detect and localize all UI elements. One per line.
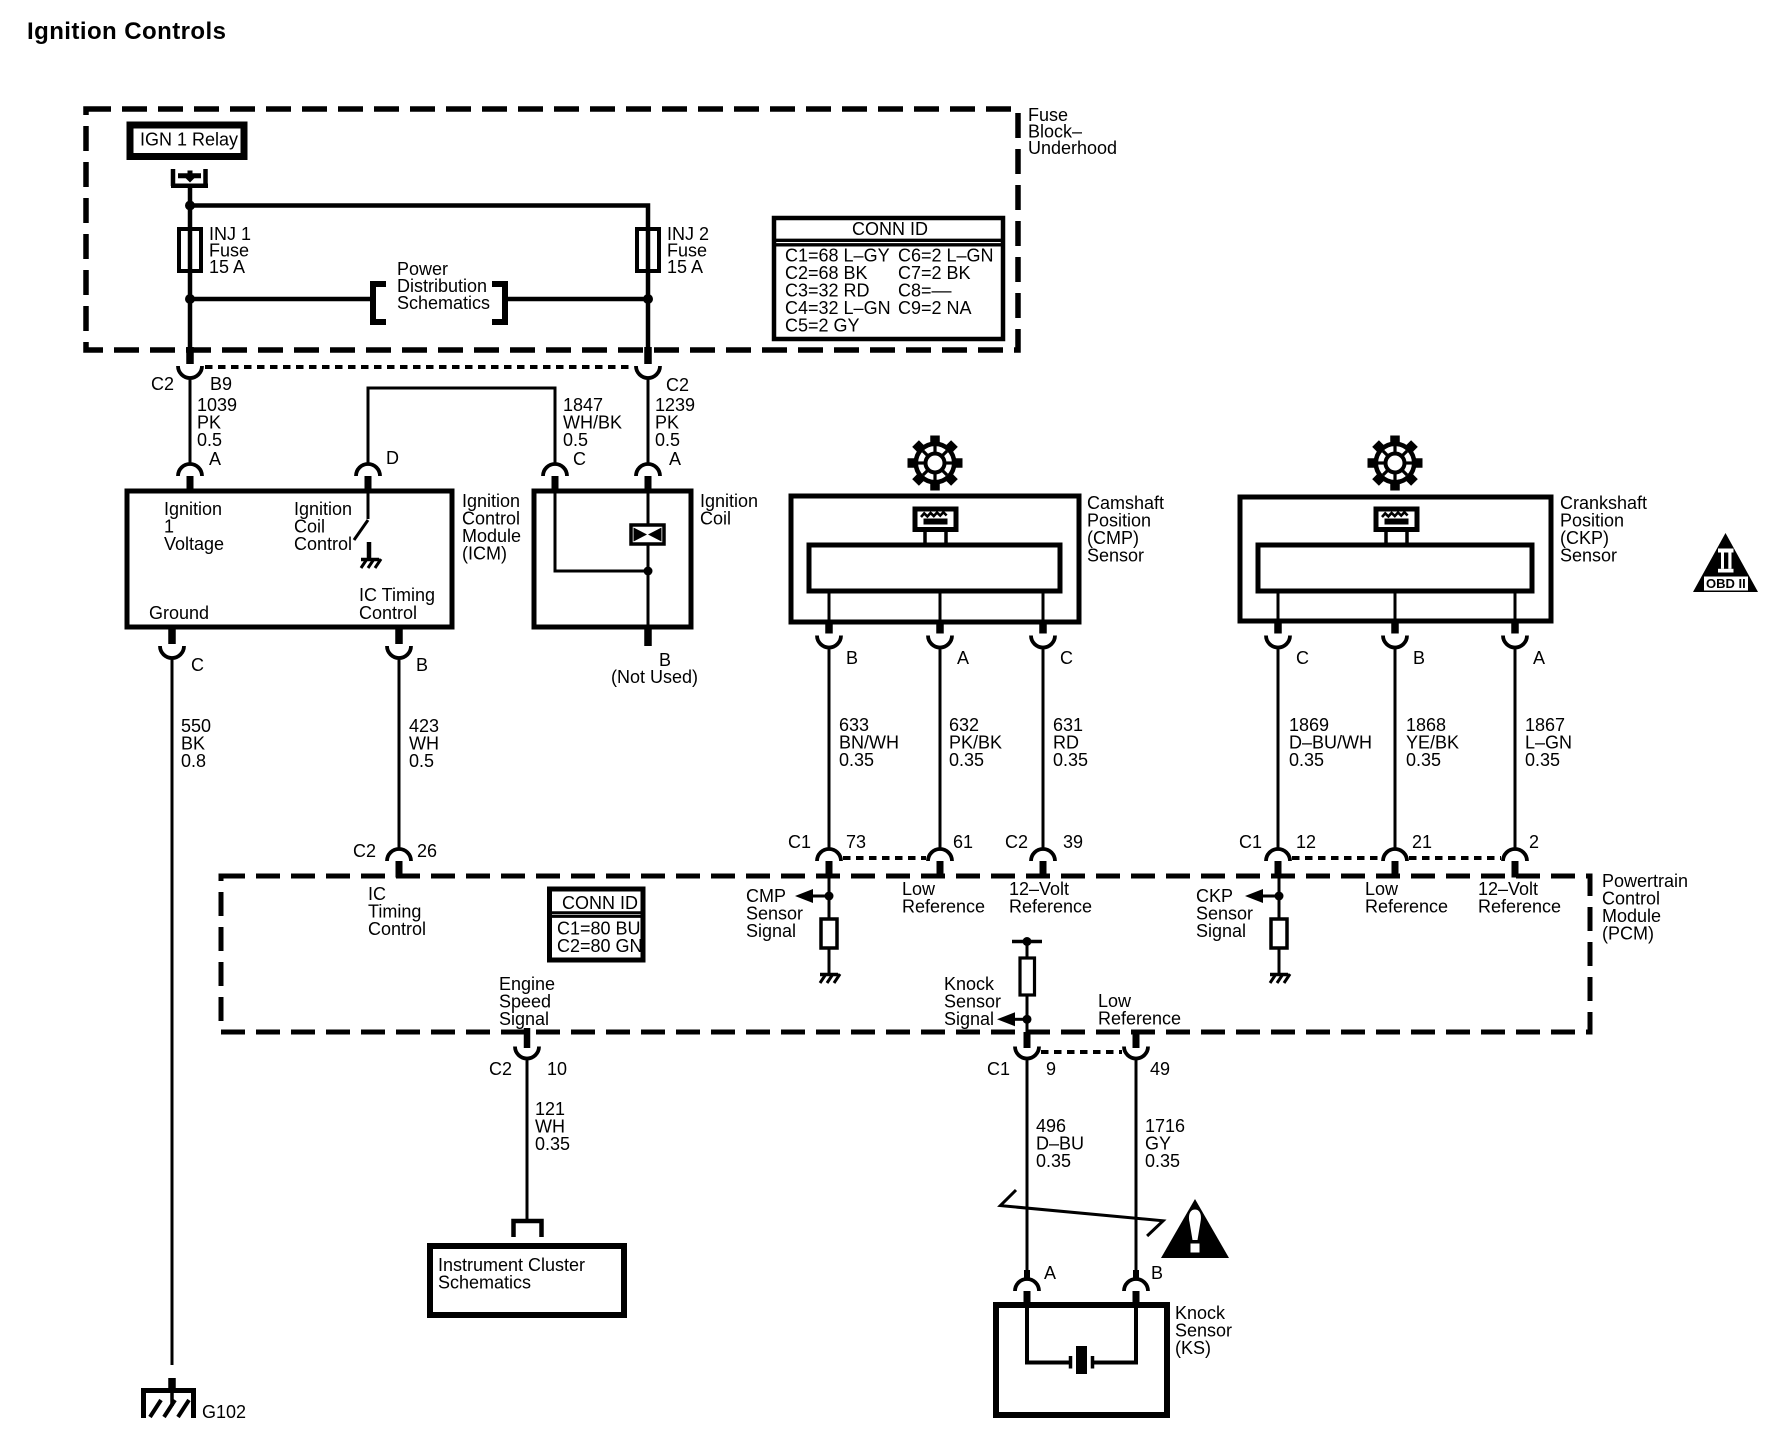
svg-text:2: 2 (1529, 832, 1539, 852)
svg-text:0.5: 0.5 (409, 751, 434, 771)
connector dome knock pin A (1015, 1279, 1039, 1291)
connector dome at coil pin C (543, 464, 567, 476)
svg-text:Control: Control (368, 919, 426, 939)
svg-text:15 A: 15 A (209, 257, 245, 277)
node junction below INJ2 fuse (643, 294, 653, 304)
ignition coil box (534, 491, 691, 627)
gear icon (CMP) (908, 436, 963, 491)
ground (inside ICM) (367, 542, 372, 558)
svg-text:Signal: Signal (1196, 921, 1246, 941)
instrument cluster box (430, 1246, 624, 1315)
svg-text:Control: Control (294, 534, 352, 554)
svg-text:Underhood: Underhood (1028, 138, 1117, 158)
knock sensor signal net stub (1012, 940, 1042, 944)
svg-text:Reference: Reference (1009, 897, 1092, 917)
svg-text:C2: C2 (489, 1059, 512, 1079)
off-page bracket to instrument cluster (514, 1221, 542, 1237)
svg-text:Signal: Signal (746, 921, 796, 941)
connector dome pin 61 (928, 849, 952, 861)
svg-text:0.35: 0.35 (839, 750, 874, 770)
CMP pin A connector (936, 622, 944, 634)
svg-text:0.35: 0.35 (1053, 750, 1088, 770)
svg-text:Voltage: Voltage (164, 534, 224, 554)
svg-text:C1: C1 (1239, 832, 1262, 852)
svg-text:Reference: Reference (1098, 1009, 1181, 1029)
svg-text:G102: G102 (202, 1402, 246, 1422)
piezo element symbol (1069, 1356, 1073, 1369)
CONN ID table (fuse block) (774, 218, 1003, 339)
fuse block underhood dashed border (86, 109, 1018, 350)
svg-text:Control: Control (359, 603, 417, 623)
svg-text:C1: C1 (987, 1059, 1010, 1079)
CKP sensor inner bar (1258, 545, 1532, 591)
wire feed2 right from bracket to INJ2 (505, 297, 648, 302)
svg-text:C5=2 GY: C5=2 GY (785, 316, 860, 336)
coil pin B stem (Not Used) (644, 627, 652, 646)
svg-text:C2: C2 (151, 374, 174, 394)
svg-text:Schematics: Schematics (438, 1273, 531, 1293)
resistor (KS pull-up) (1020, 958, 1035, 995)
svg-text:Coil: Coil (700, 509, 731, 529)
svg-text:Reference: Reference (1478, 897, 1561, 917)
connector C2 pin B9 cup (178, 366, 202, 378)
connector dome at coil pin A (636, 464, 660, 476)
dotted connector join line C2 (205, 365, 633, 369)
node junction below INJ1 fuse (185, 294, 195, 304)
CKP pin C connector (1274, 622, 1282, 634)
svg-text:12: 12 (1296, 832, 1316, 852)
warning triangle (1161, 1199, 1229, 1258)
ground (CKP resistor) (1270, 974, 1290, 983)
ICM pin C cup (160, 646, 184, 658)
svg-text:D: D (386, 448, 399, 468)
svg-text:49: 49 (1150, 1059, 1170, 1079)
wire relay to feed junction (188, 188, 193, 208)
svg-text:0.35: 0.35 (949, 750, 984, 770)
connector dome pin 39 (1031, 849, 1055, 861)
svg-text:CONN ID: CONN ID (852, 219, 928, 239)
dotted join 12-21-2 (1292, 856, 1381, 860)
wire 1868 YE/BK 0.35 (1394, 647, 1397, 849)
CKP pin B connector (1391, 622, 1399, 634)
svg-text:21: 21 (1412, 832, 1432, 852)
connector dome pin 21 (1383, 849, 1407, 861)
connector dome pin 2 (1503, 849, 1527, 861)
relay K: IGN 1 Relay label box (130, 125, 244, 157)
dotted join 9-49 (1041, 1050, 1122, 1054)
connector C2 pin 10 cup (515, 1047, 539, 1059)
svg-text:0.5: 0.5 (197, 430, 222, 450)
wire 1867 L-GN 0.35 (1514, 647, 1517, 849)
connector dome pin 12 (1266, 849, 1290, 861)
svg-text:C: C (1296, 648, 1309, 668)
svg-text:Sensor: Sensor (1560, 546, 1617, 566)
dotted join 73-61 (843, 856, 926, 860)
svg-text:B: B (1151, 1263, 1163, 1283)
CONN ID table (PCM) (550, 889, 644, 960)
svg-text:(PCM): (PCM) (1602, 924, 1654, 944)
coil internal wiring (555, 491, 648, 571)
relay contact output symbol (171, 169, 208, 186)
CKP pin A connector (1511, 622, 1519, 634)
svg-text:B9: B9 (210, 374, 232, 394)
svg-text:0.8: 0.8 (181, 751, 206, 771)
svg-text:10: 10 (547, 1059, 567, 1079)
svg-text:0.35: 0.35 (1525, 750, 1560, 770)
svg-text:C: C (573, 449, 586, 469)
ICM pin B cup (387, 646, 411, 658)
svg-text:C2: C2 (666, 375, 689, 395)
connector C1 pin 9 cup (1015, 1047, 1039, 1059)
connector C2 pin A cup (636, 366, 660, 378)
svg-text:0.35: 0.35 (1145, 1151, 1180, 1171)
svg-text:A: A (1044, 1263, 1056, 1283)
svg-text:A: A (1533, 648, 1545, 668)
resistor (CMP pull-up) (821, 919, 837, 948)
ground G102 (168, 1378, 176, 1390)
svg-text:IC Timing: IC Timing (359, 585, 435, 605)
svg-text:C1: C1 (788, 832, 811, 852)
PCM dashed border (221, 876, 1590, 1032)
svg-text:39: 39 (1063, 832, 1083, 852)
svg-text:Reference: Reference (1365, 897, 1448, 917)
switch (ignition coil control) inside ICM (367, 491, 370, 519)
CMP pin B connector (825, 622, 833, 634)
svg-text:Ignition Controls: Ignition Controls (27, 18, 226, 45)
twisted pair symbol (1000, 1190, 1163, 1236)
svg-text:61: 61 (953, 832, 973, 852)
svg-text:9: 9 (1046, 1059, 1056, 1079)
svg-text:0.35: 0.35 (1406, 750, 1441, 770)
connector dome at ICM pin D (356, 464, 380, 476)
wire tip into knock B dome (1133, 1270, 1139, 1280)
svg-text:B: B (846, 648, 858, 668)
knock sensor internal wiring (1027, 1308, 1069, 1363)
wire feed2 left to bracket (190, 297, 372, 302)
CMP sensor box (791, 496, 1079, 622)
svg-text:(Not Used): (Not Used) (611, 667, 698, 687)
fuse INJ2 15A (637, 229, 659, 271)
svg-text:OBD II: OBD II (1706, 576, 1746, 591)
wire 633 BN/WH 0.35 (828, 647, 831, 849)
ground (CMP resistor) (820, 974, 840, 983)
connector dome at ICM pin A (178, 464, 202, 476)
off-page bracket left (Power Distribution Schematics) (373, 284, 386, 322)
CMP pin C connector (1039, 622, 1047, 634)
svg-text:(ICM): (ICM) (462, 544, 507, 564)
svg-text:Sensor: Sensor (1087, 546, 1144, 566)
ground wire 550 BK 0.8 (171, 657, 174, 1365)
CMP sensor inner bar (809, 545, 1060, 591)
connector C1 pin 9 stem (1024, 1032, 1031, 1048)
connector pin 49 cup (1124, 1047, 1148, 1059)
svg-text:IGN 1 Relay: IGN 1 Relay (140, 130, 238, 150)
svg-text:0.35: 0.35 (1289, 750, 1324, 770)
wire 1239 PK 0.5 (647, 377, 650, 464)
wire 121 WH 0.35 (526, 1058, 529, 1219)
svg-text:Signal: Signal (944, 1009, 994, 1029)
svg-text:B: B (416, 655, 428, 675)
wire 496 D-BU 0.35 (1026, 1058, 1029, 1270)
svg-text:CONN ID: CONN ID (562, 893, 638, 913)
wire 632 PK/BK 0.35 (939, 647, 942, 849)
off-page bracket right (492, 284, 505, 322)
wire 423 WH 0.5 (398, 657, 401, 849)
wire 1716 GY 0.35 (1135, 1058, 1138, 1270)
svg-text:A: A (957, 648, 969, 668)
svg-text:73: 73 (846, 832, 866, 852)
svg-text:0.35: 0.35 (535, 1134, 570, 1154)
wire tip into knock A dome (1024, 1270, 1030, 1280)
wire INJ2 fuse down to border (646, 271, 651, 350)
svg-text:B: B (1413, 648, 1425, 668)
svg-text:Ground: Ground (149, 603, 209, 623)
gear icon (CKP) (1368, 436, 1423, 491)
wire ICM D to coil C (1847 WH/BK) (368, 388, 555, 464)
svg-text:0.5: 0.5 (563, 430, 588, 450)
svg-text:A: A (669, 449, 681, 469)
svg-text:C2: C2 (1005, 832, 1028, 852)
svg-text:C: C (191, 655, 204, 675)
svg-text:Schematics: Schematics (397, 293, 490, 313)
svg-text:Reference: Reference (902, 897, 985, 917)
resistor (CKP pull-up) (1271, 919, 1287, 948)
ICM pin B stem (395, 627, 403, 644)
ICM pin C stem (168, 627, 176, 644)
CMP sensor element icon (915, 509, 956, 545)
connector C2 pin A (INJ2) stem (644, 347, 652, 364)
svg-text:Signal: Signal (499, 1009, 549, 1029)
wire 631 RD 0.35 (1042, 647, 1045, 849)
svg-text:C2=80 GN: C2=80 GN (557, 936, 643, 956)
CMP internal pin wires (828, 591, 831, 622)
wire relay junction down to INJ1 fuse (188, 206, 193, 230)
node junction at relay output (185, 201, 195, 211)
connector pin 49 stem (1133, 1032, 1140, 1048)
svg-text:15 A: 15 A (667, 257, 703, 277)
wire CMP signal inside PCM (828, 878, 831, 920)
connector dome pin 73 (817, 849, 841, 861)
svg-text:0.35: 0.35 (1036, 1151, 1071, 1171)
connector C2 pin 10 stem (524, 1028, 531, 1048)
ICM module box (127, 491, 452, 627)
svg-text:A: A (209, 449, 221, 469)
CKP sensor box (1240, 497, 1551, 621)
wire 1039 PK 0.5 (189, 377, 192, 464)
wire CKP signal inside PCM (1278, 878, 1281, 920)
svg-text:26: 26 (417, 841, 437, 861)
CKP internal pin wires (1277, 591, 1280, 622)
fuse INJ1 15A (179, 229, 201, 271)
OBD II symbol (1693, 533, 1758, 592)
CKP sensor element icon (1376, 509, 1417, 545)
connector dome knock pin B (1124, 1279, 1148, 1291)
coil primary winding symbol (631, 525, 664, 544)
svg-text:C: C (1060, 648, 1073, 668)
wire INJ1 fuse down to border (188, 271, 193, 350)
wire 1869 D-BU/WH 0.35 (1277, 647, 1280, 849)
svg-text:0.5: 0.5 (655, 430, 680, 450)
svg-text:C9=2 NA: C9=2 NA (898, 298, 972, 318)
wire main feed to INJ2 branch (188, 206, 648, 230)
knock sensor box (996, 1305, 1167, 1415)
connector C2 pin B9 stem (186, 347, 194, 364)
svg-text:(KS): (KS) (1175, 1338, 1211, 1358)
svg-text:C2: C2 (353, 841, 376, 861)
